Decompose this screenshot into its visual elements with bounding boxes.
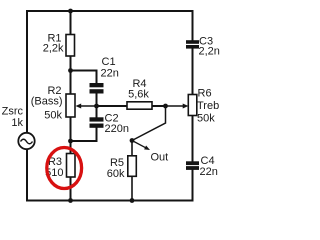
svg-text:C1: C1 (102, 56, 116, 68)
svg-text:220n: 220n (105, 123, 129, 135)
node: wiper/C1/C2/R4 junction (94, 104, 99, 109)
wire: R3 bottom lead (70, 177, 72, 201)
wire: C2 bottom to R2/R3 line (71, 128, 97, 142)
node: R2/R3/C2 junction (68, 139, 73, 144)
svg-text:Out: Out (151, 152, 169, 164)
wire: Out node to R5 (131, 141, 133, 157)
svg-text:R6: R6 (198, 87, 212, 99)
wire: branch R1/R2/R3 top lead (70, 11, 72, 35)
wire: left rail lower (Zsrc bottom lead) (26, 149, 28, 202)
svg-text:50k: 50k (44, 110, 62, 122)
svg-text:22n: 22n (101, 68, 119, 80)
R6 wiper arrowhead (183, 104, 189, 109)
wire: node to R6 wiper (166, 105, 184, 107)
svg-text:1k: 1k (11, 117, 23, 129)
svg-text:Treb: Treb (197, 100, 219, 112)
resistor R4 (127, 102, 152, 109)
svg-text:2,2n: 2,2n (199, 46, 220, 58)
wire: C1 bottom to wiper node (96, 94, 98, 107)
Out arrow (132, 141, 150, 151)
node: R5 to bottom rail (130, 198, 135, 203)
R2 wiper arrowhead (76, 104, 82, 109)
resistor R5 (128, 156, 137, 177)
svg-text:60k: 60k (107, 168, 125, 180)
node: Out junction (130, 138, 135, 143)
wire: node to C2 top (96, 106, 98, 118)
potentiometer R6 (188, 95, 197, 116)
node: R1/R2/C1 junction (68, 68, 73, 73)
wire: junction to C1 branch (71, 71, 97, 85)
wire: left rail upper (Zsrc top lead) (26, 10, 28, 133)
wire: right rail segment C3 to R6 (192, 48, 194, 96)
wire: right rail segment C4 to bottom (192, 169, 194, 202)
svg-text:2,2k: 2,2k (43, 43, 64, 55)
wire: right rail segment top (to C3) (192, 10, 194, 41)
node: R3 to bottom rail (68, 198, 73, 203)
source Zsrc (18, 133, 34, 149)
svg-text:(Bass): (Bass) (31, 96, 63, 108)
capacitor C1 (90, 83, 104, 94)
wire: R2 wiper arm (80, 105, 97, 107)
wire: top rail (27, 10, 193, 12)
svg-text:5,6k: 5,6k (128, 88, 149, 100)
node: R4/R6-wiper/out junction (163, 104, 168, 109)
wire: R2 bottom to R3 top (70, 117, 72, 154)
wire: wiper node to R4 (97, 105, 128, 107)
potentiometer R2 (66, 94, 75, 117)
wire: R5 bottom lead (131, 176, 133, 200)
resistor R1 (66, 35, 75, 57)
resistor R3 (67, 154, 76, 178)
wire: R1 bottom to node (70, 56, 72, 95)
red highlight circle around R3 (47, 148, 82, 189)
wire: output node down + diagonal to Out node (132, 106, 166, 141)
capacitor C3 (186, 40, 199, 48)
wire: right rail segment R6 to C4 (192, 116, 194, 163)
wire: R4 to output node (152, 105, 166, 107)
node: top rail junction (68, 9, 73, 14)
svg-text:50k: 50k (197, 113, 215, 125)
svg-text:22n: 22n (200, 166, 218, 178)
capacitor C2 (90, 117, 104, 128)
svg-text:Zsrc: Zsrc (2, 106, 24, 118)
wire: bottom rail (27, 200, 193, 202)
capacitor C4 (186, 161, 199, 170)
